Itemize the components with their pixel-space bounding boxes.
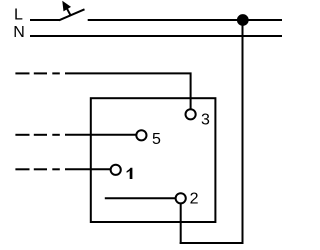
device box	[91, 98, 216, 222]
wire N horizontal	[30, 35, 282, 37]
svg-text:3: 3	[201, 111, 210, 128]
switch S1 blade	[59, 9, 85, 20]
dashed lead to terminal 5	[15, 134, 59, 136]
svg-text:5: 5	[152, 131, 161, 148]
junction dot on L wire	[237, 14, 249, 26]
switch S1 actuator arrow	[63, 2, 71, 15]
label 1 (drawn path, footless sans digit)	[127, 168, 133, 179]
dashed lead to terminal 1	[15, 168, 59, 170]
wire bottom horizontal to terminal 2 drop	[180, 242, 244, 244]
terminal circle 3	[186, 109, 196, 119]
wire vertical from terminal 2 down	[180, 203, 182, 244]
wire L from switch to right edge	[88, 19, 282, 21]
wire to terminal 2 (inside box)	[105, 197, 176, 199]
terminal circle 5	[136, 130, 146, 140]
wire to terminal 1	[65, 168, 111, 170]
terminal circle 1	[111, 165, 121, 175]
dashed lead to terminal 3	[15, 72, 59, 74]
wire vertical drop from junction dot	[242, 20, 244, 243]
svg-text:2: 2	[190, 191, 199, 208]
wire L from label to switch pivot	[30, 19, 60, 21]
svg-text:L: L	[14, 7, 23, 24]
terminal circle 2	[176, 193, 186, 203]
wire to terminal 3 (horizontal then down)	[65, 73, 191, 109]
svg-text:N: N	[13, 24, 25, 41]
wire to terminal 5	[65, 134, 136, 136]
